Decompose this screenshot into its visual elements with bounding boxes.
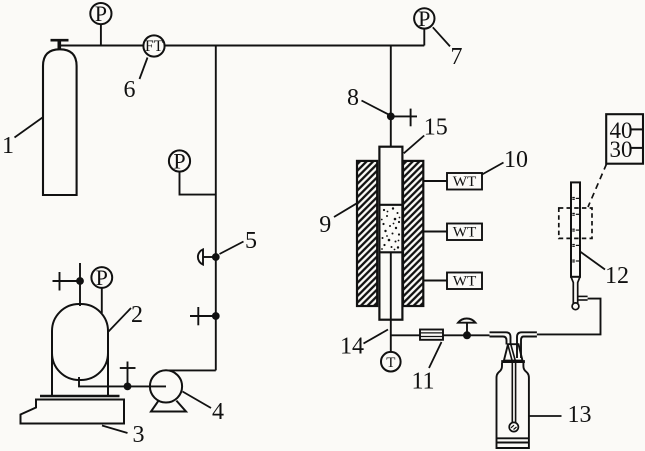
wire bottom pipe xyxy=(391,334,490,336)
thermocouple WT2 xyxy=(447,224,482,241)
wire vertical line A xyxy=(215,46,217,371)
soap film flow tube 12 xyxy=(571,182,588,309)
svg-text:8: 8 xyxy=(347,85,359,111)
svg-text:P: P xyxy=(418,6,430,31)
temperature sensor T xyxy=(381,352,401,372)
svg-text:6: 6 xyxy=(124,77,136,103)
valve V8 (cross) xyxy=(387,109,417,127)
valve on line A (cross) xyxy=(190,307,220,325)
catalyst bed xyxy=(379,205,402,253)
label 7 leader xyxy=(433,27,450,46)
pressure gauge P (middle left) xyxy=(169,149,216,195)
flowmeter 11 xyxy=(420,330,443,340)
wire WT3 xyxy=(423,280,447,282)
svg-text:13: 13 xyxy=(568,402,592,428)
svg-text:5: 5 xyxy=(245,228,257,254)
tank vent valve xyxy=(53,263,84,306)
label 6 leader xyxy=(140,58,148,80)
thermowell line in tube xyxy=(390,252,392,321)
svg-text:15: 15 xyxy=(424,115,448,141)
label 12 leader xyxy=(580,252,605,270)
svg-text:10: 10 xyxy=(504,147,528,173)
svg-text:11: 11 xyxy=(411,369,434,395)
svg-text:12: 12 xyxy=(605,263,629,289)
svg-text:14: 14 xyxy=(340,334,364,360)
dashed leader to box xyxy=(588,164,607,207)
label 4 leader xyxy=(183,392,212,409)
wire pump discharge xyxy=(166,369,216,371)
svg-text:3: 3 xyxy=(133,422,145,448)
gas washing bottle 13 xyxy=(490,332,537,448)
tank 2 vessel xyxy=(52,304,108,396)
control valve xyxy=(458,318,476,339)
svg-text:WT: WT xyxy=(453,273,477,290)
wire bottle outlet xyxy=(537,299,601,335)
gas cylinder 1 xyxy=(43,40,77,195)
svg-text:P: P xyxy=(173,149,185,174)
svg-text:9: 9 xyxy=(319,212,331,238)
label 15 leader xyxy=(404,136,424,154)
svg-text:WT: WT xyxy=(453,173,477,190)
label 11 leader xyxy=(429,342,442,368)
label 3 leader xyxy=(102,426,128,434)
furnace block 9 right (hatched) xyxy=(403,161,423,306)
wire vertical line B xyxy=(390,46,392,147)
label 2 leader xyxy=(109,308,132,332)
pressure gauge P7 xyxy=(414,6,434,46)
svg-text:30: 30 xyxy=(610,137,633,162)
svg-text:1: 1 xyxy=(2,133,14,159)
svg-text:P: P xyxy=(96,265,108,290)
label 5 leader xyxy=(220,242,244,255)
svg-text:T: T xyxy=(386,355,395,371)
pressure gauge P (top left) xyxy=(90,1,111,45)
svg-text:4: 4 xyxy=(212,399,224,425)
flow transmitter FT U6 xyxy=(143,35,164,56)
svg-text:7: 7 xyxy=(451,44,463,70)
display box 40/30 xyxy=(606,114,643,164)
wire tank outlet xyxy=(79,377,166,386)
wire top header pipe xyxy=(59,45,424,47)
label 9 leader xyxy=(334,203,357,217)
label 1 leader xyxy=(15,118,43,138)
reactor tube 15 xyxy=(379,147,402,320)
label 14 leader xyxy=(364,330,389,344)
thermocouple WT3 xyxy=(447,273,482,290)
thermocouple WT1 xyxy=(447,173,482,190)
furnace block 9 left (hatched) xyxy=(357,161,377,306)
valve on tank outlet (cross) xyxy=(120,362,136,391)
pressure gauge P (tank) xyxy=(91,265,112,313)
wire WT1 xyxy=(423,180,447,182)
svg-text:2: 2 xyxy=(131,302,143,328)
svg-text:FT: FT xyxy=(145,38,164,55)
wire reactor outlet down xyxy=(390,321,392,352)
base 3 xyxy=(21,396,125,424)
label 8 leader xyxy=(362,101,389,115)
svg-text:P: P xyxy=(95,1,107,26)
label 13 leader xyxy=(529,415,562,417)
valve V5 xyxy=(198,249,220,264)
label 10 leader xyxy=(482,163,504,175)
svg-text:WT: WT xyxy=(453,224,477,241)
pump U4 xyxy=(150,370,186,411)
wire WT2 xyxy=(423,231,447,233)
dashed sensing zone xyxy=(559,208,592,238)
